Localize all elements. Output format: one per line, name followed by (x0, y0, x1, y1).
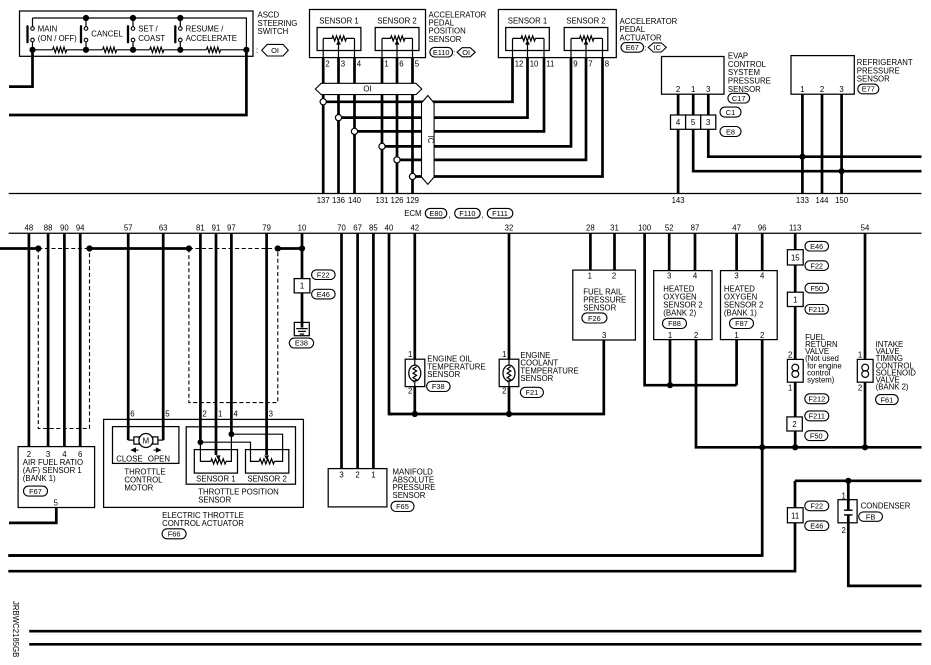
svg-text:E77: E77 (862, 85, 875, 94)
wire ECM pin 113 down through connectors to junction line (794, 233, 797, 447)
label ENGINE OIL TEMPERATURE SENSOR (427, 355, 485, 380)
svg-text:87: 87 (691, 224, 700, 233)
APA SENSOR 2 sub-box (564, 17, 608, 51)
svg-text:81: 81 (196, 224, 205, 233)
svg-text:1: 1 (588, 272, 592, 281)
svg-text:E46: E46 (810, 521, 823, 530)
wire ECM to A/F sensor (col 48.1) (47, 233, 50, 446)
resistor (MAIN) (53, 47, 67, 52)
label MANIFOLD ABSOLUTE PRESSURE SENSOR (393, 468, 436, 500)
svg-text:2: 2 (788, 351, 792, 360)
svg-text:SET /: SET / (138, 25, 158, 34)
APP sensor pin numbers (325, 60, 419, 69)
svg-text:11: 11 (791, 511, 799, 520)
potentiometer APP sensor 2 (382, 36, 413, 58)
TPS internal wiring sensor1 (200, 434, 231, 461)
junction dot refrigerant pin3 / lower line (839, 168, 845, 174)
svg-text:2: 2 (842, 526, 846, 535)
svg-text:3: 3 (339, 471, 343, 480)
junction dot oil temp pin 2 (412, 411, 418, 417)
svg-text:32: 32 (505, 224, 514, 233)
svg-text:3: 3 (269, 410, 273, 419)
in-line connector box 15 (787, 250, 803, 265)
manifold absolute pressure sensor box F65 (328, 469, 387, 507)
svg-text:F26: F26 (588, 314, 601, 323)
svg-text:SENSOR: SENSOR (520, 374, 553, 383)
svg-text:5: 5 (54, 499, 59, 508)
throttle control motor sub-box (113, 427, 179, 464)
svg-text:143: 143 (672, 196, 685, 205)
junction dot refrigerant pin1 / upper line (799, 154, 805, 160)
shield bus dashed segment 1 (38, 248, 89, 250)
svg-text:F21: F21 (526, 388, 539, 397)
svg-text:F22: F22 (810, 502, 823, 511)
svg-text:7: 7 (588, 60, 592, 69)
wire HO2S bank2 pin 1 down (669, 340, 672, 386)
svg-text:31: 31 (610, 224, 619, 233)
svg-text:CLOSE: CLOSE (116, 454, 142, 463)
in-line connector box 1 (E38 path) (294, 279, 310, 293)
shield box (dashed) around throttle position sensor wires (189, 249, 278, 403)
connector badge E46 (805, 241, 829, 251)
svg-text:91: 91 (212, 224, 221, 233)
intake valve timing control solenoid valve F61 (857, 351, 873, 393)
svg-text:CANCEL: CANCEL (91, 30, 123, 39)
svg-text:F50: F50 (810, 431, 823, 440)
svg-text:F65: F65 (396, 502, 409, 511)
svg-text:F66: F66 (168, 530, 181, 539)
svg-text:E46: E46 (810, 242, 823, 251)
svg-text:2: 2 (202, 410, 206, 419)
svg-text:1: 1 (842, 491, 846, 500)
connector badge F66 (162, 529, 186, 539)
svg-text:SENSOR 2: SENSOR 2 (247, 475, 286, 484)
wire ECM to A/F sensor (col 28.9) (28, 233, 31, 446)
fuel rail pressure sensor box F26 (573, 270, 636, 340)
svg-text:1: 1 (793, 295, 797, 304)
svg-text:F67: F67 (29, 487, 42, 496)
svg-text:F50: F50 (810, 284, 823, 293)
connector badge C17 (728, 93, 750, 103)
wire (117, 49, 150, 51)
svg-text:1: 1 (691, 85, 695, 94)
fuel return valve solenoid F212 (787, 351, 803, 393)
svg-text:F22: F22 (317, 270, 330, 279)
ECM pin numbers (bottom row) (25, 224, 870, 233)
svg-text:E38: E38 (295, 339, 308, 348)
wires: accelerator pedal position sensor pins to ECM (323, 58, 412, 194)
connector badge F212 (805, 394, 829, 404)
svg-text:C17: C17 (732, 94, 746, 103)
svg-text:2: 2 (792, 420, 796, 429)
svg-text:129: 129 (406, 196, 419, 205)
switch labels (38, 25, 237, 43)
connector badge F22 (805, 501, 829, 511)
wires: accelerator pedal actuator pins linked to APP sensor nets (326, 58, 602, 177)
connector badge E46 (805, 521, 829, 531)
svg-text:OI: OI (271, 46, 279, 55)
connector badge F88 (663, 318, 687, 328)
svg-text:2: 2 (408, 387, 412, 396)
in-line connector cells 4 / 5 / 3 (671, 115, 716, 129)
svg-text:97: 97 (227, 224, 236, 233)
svg-text:SENSOR 2: SENSOR 2 (566, 17, 605, 26)
svg-text:MAIN: MAIN (38, 25, 58, 34)
footer document code JRBWC2185GB (11, 601, 20, 657)
svg-text:SENSOR: SENSOR (728, 85, 761, 94)
wire ECM to A/F sensor (col 80.2) (79, 233, 82, 446)
TPS sensor 2 pot box (246, 450, 289, 484)
wire ECM pin 87 to HO2S bank2 pin 4 (694, 233, 697, 270)
svg-text:(BANK 2): (BANK 2) (663, 309, 696, 318)
svg-text:11: 11 (546, 60, 554, 69)
label EVAP CONTROL SYSTEM PRESSURE SENSOR (728, 51, 771, 94)
svg-text:79: 79 (262, 224, 271, 233)
svg-text:M: M (143, 437, 150, 446)
svg-text:52: 52 (665, 224, 674, 233)
svg-text:67: 67 (353, 224, 362, 233)
junction dot HO2S bank2 pin 1 (667, 382, 673, 388)
wire HO2S bank1 pin 1 down (735, 340, 738, 386)
switch SET (128, 18, 135, 50)
wire ECM pin 67 to MAP pin 2 (356, 233, 359, 468)
svg-text:E67: E67 (626, 43, 639, 52)
wire HO2S bank1 pin 2 through junction down to middle line (8, 340, 762, 556)
svg-text:1: 1 (300, 282, 304, 291)
svg-text:2: 2 (676, 85, 680, 94)
svg-text:1: 1 (858, 351, 862, 360)
svg-text:2: 2 (502, 387, 506, 396)
TPS sensor 1 pot box (194, 450, 237, 484)
svg-text:RESUME /: RESUME / (186, 25, 225, 34)
svg-text:1: 1 (734, 331, 738, 340)
ECM box bottom line (9, 232, 922, 234)
svg-text:SENSOR 1: SENSOR 1 (196, 475, 235, 484)
accelerator pedal position sensor box E110 (310, 10, 426, 58)
wire EVAP pin 3 to connector cell 3 (707, 94, 710, 115)
label ENGINE COOLANT TEMPERATURE SENSOR (520, 351, 578, 383)
label ACCELERATOR PEDAL POSITION SENSOR (429, 10, 487, 44)
refrigerant pressure sensor box E77 (791, 56, 854, 95)
CLOSE / OPEN arrows (132, 448, 161, 452)
svg-text:6: 6 (399, 60, 403, 69)
svg-text:SENSOR 1: SENSOR 1 (319, 17, 358, 26)
svg-text:3: 3 (706, 118, 710, 127)
svg-text:57: 57 (124, 224, 133, 233)
svg-text:15: 15 (791, 254, 800, 263)
wire ECM pin 10 down to connector 1 (301, 233, 304, 278)
wire ECM pin 52 to HO2S bank2 pin 3 (668, 233, 671, 270)
connector badge F211 (805, 411, 829, 421)
svg-text:E80: E80 (429, 209, 442, 218)
connector badge E110 (oval) (430, 47, 455, 57)
connector badge C1 (720, 107, 741, 117)
connector badge OI (hexagon) (262, 44, 289, 56)
svg-text:131: 131 (375, 196, 388, 205)
svg-text:2: 2 (820, 85, 824, 94)
APA pin numbers (515, 60, 609, 69)
wire ECM pin 28 to fuel rail sensor pin 1 (589, 233, 592, 270)
wire A/F sensor pin 5 output (9, 508, 56, 523)
svg-text:4: 4 (676, 118, 681, 127)
potentiometer APP sensor 1 (323, 36, 354, 58)
in-line connector box 1 (787, 292, 803, 306)
potentiometer TPS sensor 1 (211, 455, 226, 464)
label THROTTLE CONTROL MOTOR (124, 467, 165, 492)
svg-text:OI: OI (462, 48, 470, 57)
svg-text:4: 4 (233, 410, 238, 419)
svg-text:ACCELERATE: ACCELERATE (186, 34, 237, 43)
connector badge F65 (391, 501, 414, 511)
svg-text:5: 5 (691, 118, 696, 127)
connector badge E8 (720, 127, 741, 137)
svg-text:1: 1 (384, 60, 388, 69)
svg-text:6: 6 (130, 410, 134, 419)
engine coolant temperature sensor (thermistor) F21 (499, 350, 519, 396)
svg-text:2: 2 (858, 384, 862, 393)
svg-text::: : (453, 49, 455, 58)
svg-text:3: 3 (667, 272, 671, 281)
ECM pin numbers 133 144 150 (796, 196, 849, 205)
svg-text:2: 2 (355, 471, 359, 480)
svg-text:144: 144 (815, 196, 829, 205)
TPS junction dots (198, 431, 235, 445)
svg-text:4: 4 (357, 60, 362, 69)
wire ECM pin 81 to TPS pin 2 (199, 233, 202, 442)
svg-text:88: 88 (44, 224, 53, 233)
EVAP control system pressure sensor box C17 (662, 57, 725, 95)
label ELECTRIC THROTTLE CONTROL ACTUATOR (162, 511, 244, 528)
junction dot coolant temp pin 2 (506, 411, 512, 417)
shield bus dashed segment 2 (189, 248, 278, 250)
svg-text:(BANK 1): (BANK 1) (23, 474, 56, 483)
long ground line (upper middle) left part (8, 554, 762, 557)
ECM box top line (9, 193, 922, 195)
connector band IC (in-harness connector, vertical) (422, 96, 435, 185)
svg-text:system): system) (807, 376, 835, 385)
svg-text:SENSOR: SENSOR (393, 491, 426, 500)
svg-text:3: 3 (602, 331, 606, 340)
wire ECM to A/F sensor (col 64.4) (63, 233, 66, 446)
svg-text:47: 47 (732, 224, 741, 233)
ECM pin numbers (top row, APP nets) (317, 196, 419, 205)
potentiometer APA sensor 1 (513, 36, 545, 58)
svg-text:70: 70 (337, 224, 346, 233)
connector badge F67 (24, 486, 48, 496)
svg-text:28: 28 (586, 224, 595, 233)
shield bus junction dots (35, 245, 305, 251)
svg-text:90: 90 (60, 224, 69, 233)
svg-text:IC: IC (654, 43, 662, 52)
switch MAIN (28, 18, 35, 50)
ASCD internal top bus wire (33, 18, 247, 50)
wire condenser pin 2 to right edge (848, 523, 921, 586)
wire refrigerant pin 3 to ECM pin 150 (840, 94, 843, 193)
svg-text:2: 2 (325, 60, 329, 69)
wire (67, 49, 103, 51)
svg-text:85: 85 (369, 224, 378, 233)
svg-text:SENSOR: SENSOR (583, 303, 616, 312)
svg-text:48: 48 (25, 224, 34, 233)
connector badge F22 (805, 261, 829, 271)
wire ASCD MAIN output to left edge (9, 50, 33, 87)
svg-text:133: 133 (796, 196, 809, 205)
APP SENSOR 2 sub-box (375, 17, 419, 51)
svg-text:E8: E8 (726, 127, 735, 136)
connector badge IC hexagon at E67 (648, 43, 666, 52)
connector badge F26 (582, 313, 607, 323)
svg-text:3: 3 (706, 85, 710, 94)
label ASCD STEERING SWITCH (256, 11, 297, 56)
connector badge F87 (730, 318, 754, 328)
svg-text:3: 3 (341, 60, 345, 69)
svg-text:3: 3 (839, 85, 843, 94)
wire ECM pin 32 to engine coolant temperature sensor pin 1 (508, 233, 511, 359)
wire ECM pin 100 to HO2S ground link (645, 233, 737, 385)
wire cell 5 to right edge (lower) (693, 129, 921, 171)
potentiometer TPS sensor 2 (259, 455, 274, 464)
svg-text:1: 1 (371, 471, 375, 480)
wire ASCD right output to left edge (9, 50, 246, 115)
wire oil temp sensor pin 2 to ground line (413, 387, 416, 414)
svg-text::: : (644, 44, 646, 53)
wire refrigerant pin 2 to ECM pin 144 (821, 94, 824, 193)
condenser FB (838, 481, 857, 535)
switch RESUME (175, 18, 182, 50)
svg-text:MOTOR: MOTOR (124, 483, 153, 492)
svg-text:96: 96 (758, 224, 767, 233)
wire ECM pin 57 to throttle motor pin 6 (127, 233, 130, 440)
connector badge F50 (805, 283, 829, 293)
svg-text:E110: E110 (433, 48, 450, 57)
wire refrigerant pin 1 to ECM pin 133 (801, 94, 804, 193)
svg-text:10: 10 (530, 60, 539, 69)
svg-text:F38: F38 (432, 382, 445, 391)
svg-text:40: 40 (385, 224, 394, 233)
wire HO2S bank2 pin 2 to ground junction line (696, 340, 922, 448)
label REFRIGERANT PRESSURE SENSOR (857, 58, 913, 84)
svg-text:1: 1 (668, 331, 672, 340)
open-circle junctions on APP sensor wires (320, 99, 416, 180)
svg-text:F88: F88 (668, 319, 681, 328)
heated oxygen sensor 2 (bank 2) box F88 (654, 271, 712, 340)
svg-text:ECM: ECM (404, 209, 421, 218)
svg-text:SENSOR 2: SENSOR 2 (377, 17, 416, 26)
svg-text:COAST: COAST (138, 34, 165, 43)
heated oxygen sensor 2 (bank 1) box F87 (721, 271, 778, 340)
in-line connector box 11 (787, 508, 803, 523)
svg-text:1: 1 (788, 384, 792, 393)
sensor ground line to fuel rail pin 3 (389, 340, 604, 414)
svg-text:SENSOR 1: SENSOR 1 (508, 17, 547, 26)
connector badge F22 (312, 270, 336, 280)
resistor (CANCEL) (103, 47, 117, 52)
ground symbol E38 (294, 322, 309, 335)
svg-text:1: 1 (502, 350, 506, 359)
svg-text:126: 126 (390, 196, 403, 205)
svg-text:54: 54 (861, 224, 870, 233)
wire coolant temp sensor pin 2 to ground line (508, 387, 511, 414)
svg-text:,: , (448, 211, 450, 220)
switch CANCEL (81, 18, 88, 50)
wire ECM pin 70 to MAP pin 3 (340, 233, 343, 468)
wire ECM pin 47 to HO2S bank1 pin 3 (735, 233, 738, 270)
svg-text:10: 10 (298, 224, 307, 233)
potentiometer APA sensor 2 (571, 36, 603, 58)
wire (164, 49, 207, 51)
svg-text:42: 42 (410, 224, 419, 233)
label INTAKE VALVE TIMING CONTROL SOLENOID VALVE (BANK 2) (876, 340, 917, 392)
label CONDENSER (861, 502, 911, 511)
wire cell 3 to right edge (upper) (708, 129, 921, 156)
svg-text:IC: IC (426, 136, 435, 144)
svg-text:3: 3 (734, 272, 738, 281)
in-line connector box 2 (787, 417, 802, 431)
air fuel ratio sensor box F67 (18, 447, 95, 508)
connector badge FB (859, 512, 883, 521)
svg-text:SENSOR: SENSOR (429, 35, 462, 44)
svg-text:(BANK 1): (BANK 1) (724, 309, 757, 318)
connector badge OI hexagon at E110 (457, 48, 475, 57)
wire condenser branch down through connector 11 to lower middle line (8, 481, 795, 571)
svg-text:FB: FB (866, 512, 876, 521)
svg-text:SWITCH: SWITCH (258, 27, 289, 36)
ASCD steering switch outer box (20, 11, 254, 56)
svg-text:2: 2 (760, 331, 764, 340)
svg-text:F111: F111 (492, 209, 508, 218)
svg-text:94: 94 (76, 224, 85, 233)
svg-text:4: 4 (760, 272, 765, 281)
svg-text:SENSOR: SENSOR (427, 370, 460, 379)
wire (220, 49, 246, 51)
connector badge E67 (oval) (621, 43, 646, 53)
connector badge F50 (805, 431, 828, 441)
svg-text:1: 1 (218, 410, 222, 419)
svg-text:8: 8 (605, 60, 609, 69)
svg-text:63: 63 (159, 224, 168, 233)
svg-text:(ON / OFF): (ON / OFF) (38, 34, 77, 43)
ASCD bus junction dots (29, 15, 249, 53)
svg-text:F61: F61 (881, 395, 894, 404)
svg-text:9: 9 (573, 60, 577, 69)
accelerator pedal actuator box E67 (498, 10, 616, 58)
throttle position sensor sub-box (186, 427, 295, 484)
svg-text:12: 12 (515, 60, 524, 69)
label ACCELERATOR PEDAL ACTUATOR (620, 17, 678, 42)
electric throttle control actuator outer box F66 (104, 419, 304, 507)
APP SENSOR 1 sub-box (317, 17, 361, 51)
shield box (dashed) around A/F sensor wires (38, 249, 89, 429)
connector badge F21 (520, 387, 543, 397)
svg-text:F211: F211 (809, 412, 825, 421)
engine oil temperature sensor (thermistor) F38 (405, 350, 425, 396)
wire ECM pin 54 to intake valve timing solenoid (864, 233, 867, 447)
wire ECM pin 96 to HO2S bank1 pin 4 (761, 233, 764, 270)
second bottom line (29, 643, 921, 646)
svg-text:100: 100 (638, 224, 652, 233)
label THROTTLE POSITION SENSOR (198, 487, 279, 504)
ASCD bottom bus with resistors (33, 47, 247, 52)
svg-text:5: 5 (165, 410, 170, 419)
junction dots on ground junction line (759, 444, 868, 450)
svg-text:113: 113 (789, 224, 801, 233)
condenser feed line to right edge (795, 479, 922, 482)
svg-text:SENSOR: SENSOR (198, 495, 231, 504)
svg-text:F211: F211 (809, 305, 825, 314)
svg-text:F22: F22 (810, 261, 823, 270)
svg-text:ACTUATOR: ACTUATOR (620, 33, 663, 42)
ETCA pin numbers (130, 410, 273, 419)
